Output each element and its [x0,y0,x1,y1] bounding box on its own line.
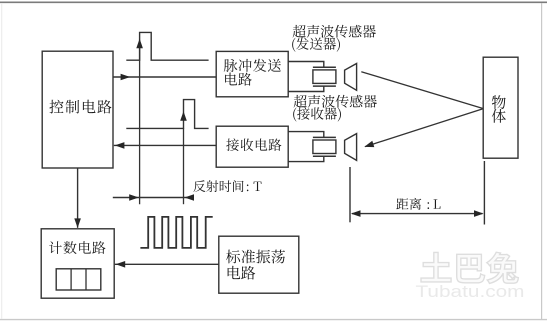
svg-text:Tubatu.com: Tubatu.com [416,282,525,301]
